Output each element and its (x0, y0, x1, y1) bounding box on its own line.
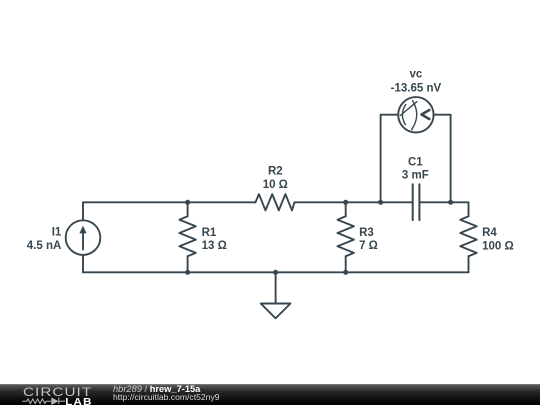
resistor R4 (460, 216, 476, 272)
svg-text:C1: C1 (408, 157, 423, 169)
resistor R2 (256, 194, 295, 210)
label C1 value 3 mF (402, 157, 429, 182)
node junction bottom R3 (343, 270, 348, 275)
svg-text:I1: I1 (52, 226, 62, 238)
svg-text:100 Ω: 100 Ω (482, 240, 514, 252)
svg-text:R3: R3 (359, 227, 374, 239)
resistor R3 (338, 202, 354, 272)
node junction voltmeter right (448, 200, 453, 205)
node junction voltmeter left (378, 200, 383, 205)
label I1 value 4.5 nA (27, 226, 62, 252)
wire voltmeter left lead (381, 115, 399, 203)
label R2 value 10 ohm (263, 165, 288, 191)
label vc value -13.65 nV (391, 68, 442, 94)
svg-text:4.5 nA: 4.5 nA (27, 240, 62, 252)
svg-text:R4: R4 (482, 227, 497, 239)
svg-text:vc: vc (410, 68, 423, 80)
svg-text:10 Ω: 10 Ω (263, 179, 288, 191)
footer bar (0, 384, 540, 405)
svg-text:7 Ω: 7 Ω (359, 240, 378, 252)
wire top rail middle (295, 201, 412, 203)
svg-text:LAB: LAB (65, 396, 93, 405)
svg-text:3 mF: 3 mF (402, 170, 429, 182)
node junction top R1 (185, 200, 190, 205)
footer title text (113, 385, 200, 395)
svg-text:-13.65 nV: -13.65 nV (391, 83, 442, 95)
CircuitLab logo (0, 385, 110, 405)
label R1 value 13 ohm (202, 227, 227, 252)
label R4 value 100 ohm (482, 227, 514, 253)
svg-text:R2: R2 (268, 165, 283, 177)
svg-text:R1: R1 (202, 227, 217, 239)
ground (261, 272, 291, 318)
wire top rail left (83, 201, 256, 203)
wire top rail right (420, 202, 468, 216)
wire voltmeter right lead (434, 115, 451, 203)
label R3 value 7 ohm (359, 227, 378, 252)
resistor R1 (179, 202, 195, 272)
footer url text (113, 393, 220, 403)
capacitor C1 (413, 184, 420, 220)
node junction bottom R1 (185, 270, 190, 275)
current source I1 (66, 202, 101, 272)
wire bottom rail (83, 271, 469, 273)
node junction ground (273, 270, 278, 275)
svg-text:13 Ω: 13 Ω (202, 240, 227, 252)
voltmeter vc (398, 97, 433, 132)
node junction top R3 (343, 200, 348, 205)
